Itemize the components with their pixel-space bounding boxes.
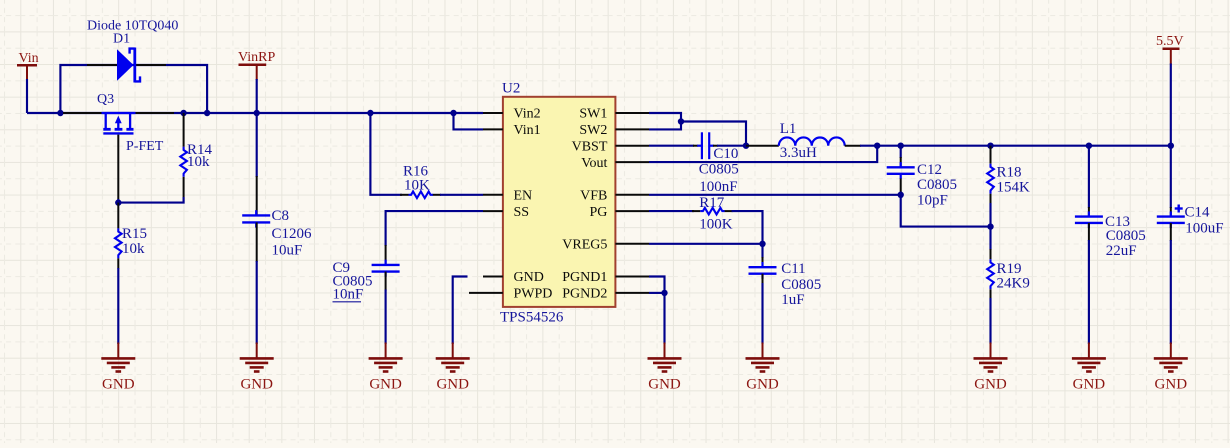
wire C9 to GND <box>385 290 387 345</box>
svg-text:PGND1: PGND1 <box>562 270 607 285</box>
junction C12 top <box>898 143 904 149</box>
wire IC GND pin to GND <box>453 277 468 345</box>
wire C14 to GND <box>1170 240 1172 344</box>
capacitor C12 C0805 10pF <box>887 146 957 209</box>
svg-text:GND: GND <box>974 377 1007 393</box>
diode D1 (Schottky 10TQ040) <box>87 19 178 83</box>
wire PGND1 to join <box>649 277 665 293</box>
svg-text:P-FET: P-FET <box>126 139 164 154</box>
pin GND <box>483 276 503 278</box>
wire R15 to GND <box>117 268 119 344</box>
svg-text:Diode 10TQ040: Diode 10TQ040 <box>87 19 178 34</box>
wire R17 to VREG5 rail <box>725 210 733 212</box>
wire R16 to EN pin <box>433 194 441 196</box>
svg-text:C11: C11 <box>781 261 805 277</box>
svg-text:GND: GND <box>1155 377 1188 393</box>
svg-text:Vin: Vin <box>19 51 39 66</box>
svg-text:3.3uH: 3.3uH <box>780 145 817 161</box>
svg-text:5.5V: 5.5V <box>1156 34 1184 49</box>
svg-text:SW1: SW1 <box>579 107 607 122</box>
wire SW1 to switch join <box>649 113 681 122</box>
svg-text:10K: 10K <box>404 178 430 194</box>
svg-text:Vin2: Vin2 <box>514 107 541 122</box>
wire C10 to node <box>717 145 746 147</box>
svg-text:D1: D1 <box>113 32 130 47</box>
svg-text:Q3: Q3 <box>97 92 114 107</box>
pin PGND1 <box>615 276 649 278</box>
svg-text:VFB: VFB <box>580 189 607 204</box>
svg-text:154K: 154K <box>997 180 1031 196</box>
resistor R14 10k <box>180 113 212 197</box>
junction C13 top <box>1086 143 1092 149</box>
svg-text:10k: 10k <box>187 154 210 170</box>
svg-text:VinRP: VinRP <box>238 50 275 65</box>
wire bootstrap from SW join to C10 node <box>681 122 746 146</box>
junction bus/VinRP/C8 <box>254 110 260 116</box>
svg-text:U2: U2 <box>502 81 520 97</box>
svg-text:C14: C14 <box>1185 205 1211 221</box>
svg-text:10nF: 10nF <box>333 287 364 303</box>
svg-text:100uF: 100uF <box>1185 221 1223 237</box>
svg-text:C0805: C0805 <box>917 177 957 193</box>
wire C13 to GND <box>1088 240 1090 344</box>
junction VFB/C12 <box>898 192 904 198</box>
svg-text:Vout: Vout <box>581 156 607 171</box>
wire C11 to GND <box>761 283 763 344</box>
svg-text:SW2: SW2 <box>579 123 607 138</box>
svg-text:L1: L1 <box>780 121 797 137</box>
inductor L1 3.3uH <box>746 121 861 161</box>
wire VinRP stem <box>256 79 258 113</box>
wire main input bus y=113 <box>27 112 483 114</box>
svg-text:GND: GND <box>1073 377 1106 393</box>
junction divider mid <box>987 223 993 229</box>
svg-text:VBST: VBST <box>572 139 608 154</box>
node VinRP power port <box>238 50 275 80</box>
junction bus/R14 <box>180 110 186 116</box>
svg-text:PGND2: PGND2 <box>562 287 607 302</box>
svg-text:Vin1: Vin1 <box>514 123 541 138</box>
pin PWPD <box>469 292 503 294</box>
pin SW2 <box>615 128 649 130</box>
junction R17/VREG5/C11 <box>759 241 765 247</box>
junction R18 top <box>987 143 993 149</box>
capacitor C14 100uF polarized <box>1157 146 1224 241</box>
ground below PGND <box>664 343 666 359</box>
pin SW1 <box>615 112 649 114</box>
svg-text:GND: GND <box>102 377 135 393</box>
svg-text:22uF: 22uF <box>1106 243 1137 259</box>
ground below C14 <box>1170 343 1172 359</box>
svg-text:1uF: 1uF <box>781 292 804 308</box>
pin EN <box>483 194 503 196</box>
wire PG pin to R17 <box>649 210 694 212</box>
capacitor C13 C0805 22uF <box>1075 146 1146 259</box>
junction bus/diode-right <box>204 110 210 116</box>
svg-text:24K9: 24K9 <box>997 276 1030 292</box>
junction C14 / 5.5V <box>1168 143 1174 149</box>
node 5.5V power port <box>1156 34 1184 64</box>
wire PGND2 to join <box>649 292 665 294</box>
node Vin power port <box>17 51 39 80</box>
svg-text:PG: PG <box>589 205 607 220</box>
pin SS <box>483 210 503 212</box>
svg-text:GND: GND <box>240 377 273 393</box>
junction bus/diode-left <box>57 110 63 116</box>
capacitor C8 C1206 10uF <box>242 113 312 262</box>
wire bus to EN (drop at x=370.4) <box>370 113 402 195</box>
capacitor C11 C0805 1uF <box>749 244 822 308</box>
svg-text:10uF: 10uF <box>272 243 303 259</box>
resistor R16 10K <box>403 164 433 199</box>
junction gate/R15 <box>115 199 121 205</box>
capacitor C9 C0805 10nF <box>333 245 400 303</box>
svg-text:C0805: C0805 <box>699 162 739 178</box>
svg-text:100K: 100K <box>699 217 733 233</box>
svg-text:TPS54526: TPS54526 <box>500 310 564 326</box>
wire VFB to C12 bottom <box>649 194 901 196</box>
junction SW1/SW2 <box>678 118 684 124</box>
svg-text:C8: C8 <box>272 208 290 224</box>
wire PGND join to GND <box>663 293 665 344</box>
junction bus/EN branch <box>367 110 373 116</box>
resistor R17 100K <box>699 195 733 233</box>
ground below C8 <box>256 343 258 359</box>
svg-text:EN: EN <box>514 189 533 204</box>
transistor Q3 P-FET <box>63 92 174 199</box>
wire VREG5 pin to rail <box>649 243 763 245</box>
svg-text:GND: GND <box>648 377 681 393</box>
wire R19 to GND <box>989 298 991 344</box>
wire diode top branch <box>60 65 207 113</box>
svg-text:SS: SS <box>514 205 530 220</box>
wire Vout pin up to output rail <box>649 146 877 162</box>
ground below C9 <box>385 343 387 359</box>
pin Vin1 <box>483 128 503 130</box>
junction Vout riser <box>874 143 880 149</box>
svg-text:10pF: 10pF <box>917 193 948 209</box>
svg-text:R18: R18 <box>997 165 1022 181</box>
resistor R19 24K9 <box>987 227 1030 300</box>
ground below C13 <box>1088 343 1090 359</box>
pin Vout <box>615 161 649 163</box>
junction PGND1/PGND2 <box>661 290 667 296</box>
wire 5.5V stem to output rail <box>1170 64 1172 146</box>
svg-text:C10: C10 <box>713 146 738 162</box>
pin PGND2 <box>615 292 649 294</box>
svg-text:GND: GND <box>369 377 402 393</box>
svg-text:C12: C12 <box>917 162 942 178</box>
junction bootstrap/C10/L1 node <box>743 143 749 149</box>
resistor R18 154K <box>987 146 1030 204</box>
pin VREG5 <box>615 243 649 245</box>
svg-text:GND: GND <box>436 377 469 393</box>
wire Vin1 branch <box>454 113 484 129</box>
svg-text:100nF: 100nF <box>699 179 737 195</box>
wire Vin stem down to bus <box>26 79 28 113</box>
svg-text:GND: GND <box>514 270 544 285</box>
pin VBST <box>615 145 649 147</box>
svg-text:GND: GND <box>746 377 779 393</box>
wire SW2 to switch join <box>649 122 681 130</box>
wire VBST pin to C10 <box>649 145 694 147</box>
wire gate rail to R14 bottom <box>118 197 183 203</box>
ground below R15 <box>117 343 119 359</box>
wire C12 bottom to VFB and down to divider mid <box>901 192 991 227</box>
svg-text:VREG5: VREG5 <box>562 238 607 253</box>
ground below IC GND pin <box>452 343 454 359</box>
wire SS to C9 <box>386 211 483 246</box>
junction bus/Vin1 branch <box>450 110 456 116</box>
wire C8 to GND <box>256 261 258 344</box>
svg-text:C0805: C0805 <box>1106 228 1146 244</box>
ground below R19 <box>990 343 992 359</box>
op-amp U2 TPS54526 body <box>500 81 615 326</box>
pin Vin2 <box>483 112 503 114</box>
capacitor C10 C0805 100nF <box>693 132 739 195</box>
svg-text:R15: R15 <box>122 226 147 242</box>
pin VFB <box>615 194 649 196</box>
svg-text:C0805: C0805 <box>781 277 821 293</box>
wire output node rail <box>860 145 1171 147</box>
svg-text:C1206: C1206 <box>272 226 313 242</box>
wire R18 to divider mid <box>989 203 991 227</box>
resistor R15 10k <box>115 203 147 269</box>
pin PG <box>615 210 649 212</box>
svg-text:10k: 10k <box>122 241 145 257</box>
ground below C11 <box>762 343 764 359</box>
svg-text:PWPD: PWPD <box>514 287 553 302</box>
